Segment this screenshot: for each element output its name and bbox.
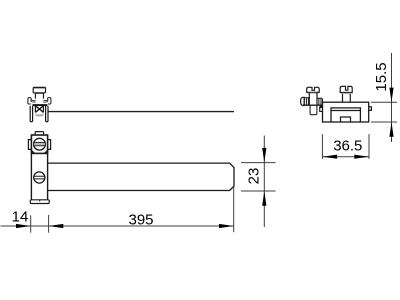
top-right view: right screw washer (341, 92, 351, 94)
top-left side view: right saddle curves (43, 100, 48, 102)
dim 15.5: vertical dimension line (391, 53, 393, 142)
arrow dim15.5 bottom pointing up (389, 122, 393, 137)
rod line from side view (48, 111, 234, 113)
arrow dim36.5 right pointing right (354, 155, 369, 159)
dim 23: bottom extension line (241, 190, 276, 192)
front view: middle screw circle (34, 172, 45, 183)
top-right view: right small tab (369, 107, 372, 111)
dim 36.5: dimension line (322, 156, 369, 158)
top-right view: horizontal screw bottom washer line (303, 104, 323, 106)
top-right view: left screw washer (308, 92, 319, 94)
front view: left side tab (28, 140, 31, 150)
top-left side view: right wing ear (48, 98, 51, 104)
top-left side view: lower cylinder rim (36, 113, 43, 116)
front view: head box bottom-left chamfer (31, 151, 34, 154)
top-left side view: screw head (33, 87, 45, 92)
long bar outline with chamfered right end (48, 163, 234, 190)
top-left side view: dark clamp band (33, 104, 48, 106)
top-left side view: left leg (30, 106, 32, 122)
front view: top screw slot (34, 143, 46, 146)
front view: top tab (35, 132, 43, 135)
top-right view: right screw post (343, 93, 351, 103)
dim 23: top extension line (241, 162, 276, 164)
top-left side view: X brace diagonals (35, 106, 43, 113)
top-left side view: right leg (46, 106, 48, 122)
top-left side view: left wing ear (28, 98, 31, 104)
svg-text:395: 395 (128, 211, 153, 228)
top-right view: left screw head with slot (307, 87, 320, 92)
top-left side view: X brace box (35, 106, 43, 113)
top-right view: left clip dark tick (320, 105, 323, 107)
dim 395: right extension line (233, 187, 235, 233)
arrow dim395 left pointing left (49, 224, 64, 228)
arrow dim23 top pointing down (262, 148, 266, 163)
arrow dim395 right pointing right (219, 224, 234, 228)
dim shared extension line at x=48.6 (48, 215, 50, 233)
top-right view: left clip square (320, 108, 323, 112)
front view: body walls (31, 153, 47, 199)
arrow dim23 bottom pointing up (262, 191, 266, 206)
front view: middle screw slot (34, 176, 45, 179)
dim 395 and 14: main dimension line (1, 225, 234, 227)
front view: base plate center tick (39, 200, 41, 202)
top-right view: horizontal screw left head (301, 97, 305, 105)
top-left side view: screw neck (35, 93, 43, 99)
top-left side view: screw head slot line (34, 88, 44, 90)
front view: top screw slot hatch (34, 143, 45, 145)
dim 15.5: bottom extension line (371, 121, 397, 123)
dim 14: left extension line (30, 215, 32, 232)
top-right view: bottom notch (341, 117, 351, 122)
top-right view: body rectangle (323, 102, 369, 122)
top-right view: inner recess (331, 108, 360, 122)
svg-text:36.5: 36.5 (333, 137, 362, 154)
dim 23: vertical dimension line (263, 136, 265, 228)
svg-text:15.5: 15.5 (373, 62, 390, 91)
front view: head box bottom-right chamfer (45, 151, 48, 154)
top-right view: left screw post (309, 92, 317, 105)
dim 36.5: right extension line (368, 134, 370, 159)
top-right view: horizontal screw right bands (317, 98, 323, 104)
top-right view: right screw head with slot (340, 86, 352, 92)
dim 15.5: top extension line (371, 101, 397, 103)
top-right view: left post lower part (310, 106, 317, 115)
front view: base plate (30, 200, 49, 204)
arrow dim36.5 left pointing left (322, 155, 337, 159)
dim 36.5: left extension line (321, 134, 323, 159)
top-right view: horizontal screw left bands (304, 98, 309, 105)
svg-text:23: 23 (246, 168, 263, 185)
svg-text:14: 14 (12, 208, 29, 225)
front view: top screw circle (34, 138, 46, 150)
front view: head box (31, 135, 47, 153)
top-left side view: left saddle curves (31, 100, 36, 102)
arrow dim15.5 top pointing down (389, 88, 393, 103)
dimension lines group (1, 53, 398, 233)
front view: right side tab (48, 140, 51, 150)
arrow dim14 left pointing right (16, 224, 31, 228)
